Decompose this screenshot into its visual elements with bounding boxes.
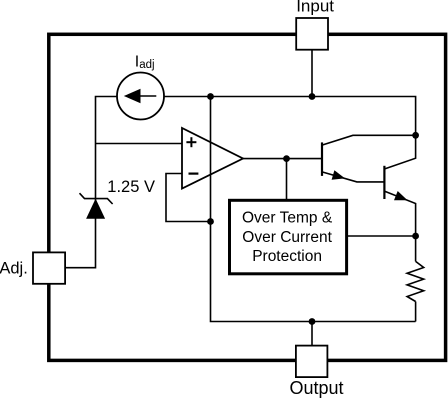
svg-text:Adj.: Adj. xyxy=(0,259,28,277)
wire: op-amp feedback loop to center line xyxy=(166,174,211,222)
junction: output rail / Output pin xyxy=(309,318,316,325)
wire: op-amp + input xyxy=(96,143,183,145)
junction: emitter / resistor / protection output xyxy=(412,233,419,240)
pin Input box xyxy=(296,18,328,50)
pin Adj box xyxy=(33,252,65,283)
outer case border xyxy=(49,34,446,360)
wire: left rail down through zener to Adj pin xyxy=(65,144,95,268)
svg-text:Output: Output xyxy=(289,378,343,398)
wire: op-amp output to Q1 base xyxy=(243,158,321,160)
pin Output box xyxy=(296,346,328,378)
junction: top rail / center line xyxy=(207,93,214,100)
current source Iadj xyxy=(117,73,164,120)
wire: Input pin drop xyxy=(311,50,313,97)
transistor Q2 xyxy=(384,135,415,236)
op-amp U1 xyxy=(182,128,243,189)
wire: center vertical line x=210.5 down to output rail xyxy=(211,97,416,322)
junction: op-amp output / protection tap xyxy=(283,155,290,162)
zener diode D1 (1.25 V reference) xyxy=(80,193,113,219)
svg-text:1.25 V: 1.25 V xyxy=(107,178,155,196)
wire: Iadj source left lead to left vertical rail xyxy=(96,97,118,144)
svg-text:Over Current: Over Current xyxy=(242,229,332,246)
wire: tap down to protection block xyxy=(286,159,288,201)
svg-text:Input: Input xyxy=(296,0,334,16)
wire: Output pin riser xyxy=(311,322,313,346)
transistor Q1 xyxy=(322,135,416,182)
wire: protection block output to resistor node xyxy=(347,235,416,237)
svg-text:Over Temp &: Over Temp & xyxy=(242,210,333,227)
svg-text:Protection: Protection xyxy=(252,248,322,265)
wire: top rail y=96.5 from current source to right drop xyxy=(164,97,416,136)
junction: Q1 collector node xyxy=(412,132,419,139)
protection block xyxy=(230,200,347,273)
junction: top rail / Input drop xyxy=(309,93,316,100)
resistor R1 xyxy=(407,236,424,322)
junction: feedback / center line xyxy=(207,218,214,225)
